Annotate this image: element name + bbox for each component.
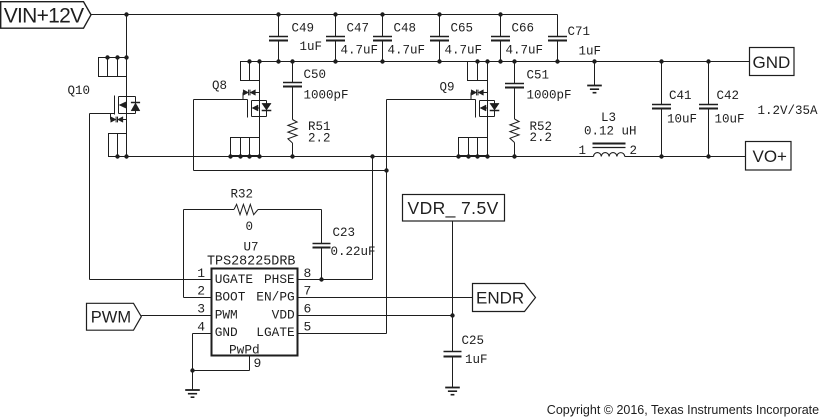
junction GND rail x=477.5 bbox=[475, 59, 479, 63]
svg-text:1000pF: 1000pF bbox=[527, 89, 572, 103]
svg-text:Q8: Q8 bbox=[212, 79, 227, 93]
svg-text:C41: C41 bbox=[669, 89, 692, 103]
svg-text:C48: C48 bbox=[394, 22, 417, 36]
svg-text:VO+: VO+ bbox=[753, 147, 788, 166]
svg-text:C71: C71 bbox=[568, 25, 591, 39]
junction C23 bottom on PHSE wire bbox=[319, 277, 323, 281]
junction GND/PwPd wires bbox=[190, 368, 194, 372]
svg-text:4.7uF: 4.7uF bbox=[388, 44, 426, 58]
junction VIN rail x=278.5 bbox=[276, 12, 280, 16]
junction phase/VO rail x=458.5 bbox=[456, 154, 460, 158]
svg-text:C25: C25 bbox=[462, 334, 485, 348]
svg-text:1: 1 bbox=[579, 144, 587, 158]
capacitor C49 bbox=[269, 15, 288, 62]
transistor Q10 mosfet symbol bbox=[90, 77, 141, 134]
svg-text:1.2V/35A: 1.2V/35A bbox=[758, 104, 819, 118]
net flag VIN+12V bbox=[1, 2, 91, 29]
svg-text:1: 1 bbox=[197, 266, 205, 281]
wire pin 4 GND bbox=[193, 333, 212, 335]
junction VIN rail x=500.5 bbox=[498, 12, 502, 16]
net flag ENDR bbox=[473, 284, 536, 312]
wire phase/switch node rail bbox=[109, 156, 594, 158]
svg-text:6: 6 bbox=[304, 302, 312, 317]
capacitor C66 bbox=[491, 15, 510, 62]
capacitor C25 bbox=[444, 352, 462, 388]
svg-text:GND: GND bbox=[753, 53, 791, 72]
wire R32 right lead to C23 bbox=[258, 209, 322, 211]
transistor Q9 gate ESD diode pair bbox=[471, 90, 488, 100]
svg-text:PHSE: PHSE bbox=[264, 272, 295, 287]
junction GND rail x=382.5 bbox=[380, 59, 384, 63]
transistor Q8 source pin package bbox=[241, 62, 260, 81]
svg-text:2.2: 2.2 bbox=[530, 131, 553, 145]
junction GND rail x=487.5 bbox=[485, 59, 489, 63]
junction GND rail x=249.5 bbox=[247, 59, 251, 63]
transistor Q9 source pin package bbox=[468, 62, 488, 81]
wire LGATE vertical (Q9 gate / pin 5) bbox=[386, 100, 388, 334]
svg-text:0.22uF: 0.22uF bbox=[331, 245, 376, 259]
svg-text:BOOT: BOOT bbox=[215, 290, 246, 305]
IC U7 TPS28225DRB box bbox=[212, 269, 298, 356]
junction phase/VO rail x=487.5 bbox=[485, 154, 489, 158]
capacitor C65 bbox=[430, 15, 449, 62]
wire PWM flag to pin 3 bbox=[141, 315, 211, 317]
svg-text:C23: C23 bbox=[333, 226, 356, 240]
inductor L3 bbox=[593, 144, 626, 157]
svg-text:C42: C42 bbox=[717, 89, 740, 103]
junction phase/VO rail x=126.5 bbox=[124, 154, 128, 158]
svg-text:2.2: 2.2 bbox=[308, 132, 331, 146]
junction phase/VO rail x=661.5 bbox=[659, 154, 663, 158]
junction VDD / VDR / C25 bbox=[450, 313, 454, 317]
junction GND rail x=557.5 bbox=[555, 59, 559, 63]
svg-text:C66: C66 bbox=[512, 22, 535, 36]
junction phase/VO rail x=249.5 bbox=[247, 154, 251, 158]
capacitor C41 bbox=[652, 62, 671, 157]
junction VIN rail x=382.5 bbox=[380, 12, 384, 16]
junction GND rail x=439.5 bbox=[437, 59, 441, 63]
junction GND rail x=259.5 bbox=[257, 59, 261, 63]
junction GND rail x=500.5 bbox=[498, 59, 502, 63]
junction GND rail x=708.5 bbox=[706, 59, 710, 63]
wire LGATE pin 5 to gate bus bbox=[298, 333, 387, 335]
svg-text:Q9: Q9 bbox=[440, 81, 455, 95]
wire PHSE vertical from phase rail bbox=[372, 157, 374, 280]
wire pin 9 PwPd bbox=[249, 356, 251, 371]
svg-text:4.7uF: 4.7uF bbox=[341, 44, 379, 58]
transistor Q9 mosfet symbol bbox=[387, 81, 500, 138]
svg-text:Q10: Q10 bbox=[68, 84, 91, 98]
junction LGATE bus bbox=[384, 168, 388, 172]
wire Q8 gate drop to LGATE bus bbox=[193, 100, 195, 171]
svg-text:1uF: 1uF bbox=[579, 45, 602, 59]
junction phase/VO rail x=514.5 bbox=[512, 154, 516, 158]
junction VIN rail x=439.5 bbox=[437, 12, 441, 16]
capacitor C42 bbox=[699, 62, 718, 157]
transistor Q9 drain pin package bbox=[459, 138, 488, 157]
wire VO+ rail after inductor bbox=[625, 156, 746, 158]
transistor Q8 gate ESD diode pair bbox=[243, 90, 260, 100]
resistor R52 bbox=[510, 119, 519, 157]
capacitor C50 bbox=[283, 62, 302, 120]
svg-text:0: 0 bbox=[246, 220, 254, 234]
svg-text:1uF: 1uF bbox=[465, 353, 488, 367]
wire EN/PG pin 7 to ENDR flag bbox=[298, 297, 473, 299]
capacitor C47 bbox=[326, 15, 345, 62]
svg-text:Copyright © 2016, Texas Instru: Copyright © 2016, Texas Instruments Inco… bbox=[547, 403, 819, 417]
capacitor C23 bbox=[313, 244, 331, 280]
ground symbol below C25 bbox=[445, 388, 460, 395]
svg-text:U7: U7 bbox=[244, 240, 259, 254]
svg-text:EN/PG: EN/PG bbox=[256, 290, 294, 305]
svg-text:2: 2 bbox=[197, 284, 205, 299]
junction GND rail x=514.5 bbox=[512, 59, 516, 63]
junction GND rail x=594.5 bbox=[592, 59, 596, 63]
svg-text:10uF: 10uF bbox=[715, 113, 745, 127]
transistor Q10 drain pin package bbox=[99, 15, 129, 77]
svg-text:7: 7 bbox=[304, 284, 312, 299]
svg-text:9: 9 bbox=[254, 356, 262, 371]
wire PHSE horizontal to pin 8 bbox=[298, 279, 373, 281]
svg-text:4.7uF: 4.7uF bbox=[445, 44, 483, 58]
svg-text:C49: C49 bbox=[292, 22, 315, 36]
svg-text:LGATE: LGATE bbox=[256, 325, 295, 340]
svg-text:TPS28225DRB: TPS28225DRB bbox=[207, 254, 295, 269]
resistor R32 bbox=[234, 204, 258, 214]
net flag GND bbox=[750, 48, 795, 76]
junction GND rail x=661.5 bbox=[659, 59, 663, 63]
junction VIN rail x=335.5 bbox=[333, 12, 337, 16]
junction phase/VO rail x=468.5 bbox=[466, 154, 470, 158]
junction phase/VO rail x=292.5 bbox=[290, 154, 294, 158]
svg-text:10uF: 10uF bbox=[667, 113, 697, 127]
svg-text:C47: C47 bbox=[347, 22, 370, 36]
wire VDD pin 6 to VDR node bbox=[298, 315, 453, 317]
svg-text:0.12 uH: 0.12 uH bbox=[584, 125, 637, 139]
net flag VO+ bbox=[746, 142, 792, 171]
net flag VDR_ 7.5V bbox=[403, 195, 505, 222]
svg-text:C51: C51 bbox=[527, 69, 550, 83]
svg-text:VIN+12V: VIN+12V bbox=[4, 5, 84, 28]
svg-text:C50: C50 bbox=[304, 68, 327, 82]
net flag PWM bbox=[87, 303, 142, 330]
svg-text:VDR_ 7.5V: VDR_ 7.5V bbox=[408, 198, 499, 219]
wire R32 left lead / BOOT bbox=[184, 209, 235, 211]
svg-text:ENDR: ENDR bbox=[476, 289, 524, 308]
junction phase/VO rail x=117.5 bbox=[115, 154, 119, 158]
svg-text:4.7uF: 4.7uF bbox=[506, 44, 544, 58]
transistor Q8 drain pin package bbox=[231, 138, 260, 157]
wire C71 top drop bbox=[557, 15, 559, 37]
wire GND rail (input/output return) bbox=[241, 61, 750, 63]
svg-text:GND: GND bbox=[215, 325, 238, 340]
svg-text:PWM: PWM bbox=[215, 307, 238, 322]
svg-text:3: 3 bbox=[197, 302, 205, 317]
svg-text:5: 5 bbox=[304, 319, 312, 334]
wire LGATE bus horizontal bbox=[194, 170, 387, 172]
resistor R51 bbox=[288, 120, 297, 157]
wire VIN rail bbox=[91, 14, 558, 16]
junction phase/VO rail x=240.5 bbox=[238, 154, 242, 158]
wire UGATE pin 1 to Q10 gate bbox=[90, 279, 212, 281]
svg-text:1uF: 1uF bbox=[300, 40, 323, 54]
svg-text:C65: C65 bbox=[451, 22, 474, 36]
ground symbol below U7 bbox=[185, 371, 200, 398]
junction VIN rail x=126.5 bbox=[124, 12, 128, 16]
svg-text:PWM: PWM bbox=[91, 309, 131, 327]
svg-text:UGATE: UGATE bbox=[215, 272, 254, 287]
junction phase/VO rail x=230.5 bbox=[228, 154, 232, 158]
transistor Q10 source pin package bbox=[109, 134, 127, 157]
svg-text:4: 4 bbox=[197, 319, 205, 334]
svg-text:2: 2 bbox=[630, 144, 638, 158]
junction phase/VO rail x=259.5 bbox=[257, 154, 261, 158]
transistor Q8 mosfet symbol bbox=[194, 81, 272, 138]
ground symbol on GND rail bbox=[587, 62, 602, 93]
junction phase/VO rail x=372.5 bbox=[370, 154, 374, 158]
capacitor C71 bbox=[548, 37, 567, 62]
capacitor C48 bbox=[373, 15, 392, 62]
junction phase/VO rail x=477.5 bbox=[475, 154, 479, 158]
capacitor C51 bbox=[505, 62, 524, 120]
svg-text:VDD: VDD bbox=[272, 307, 295, 322]
junction GND rail x=292.5 bbox=[290, 59, 294, 63]
transistor Q10 gate ESD diode pair bbox=[111, 114, 127, 123]
wire VDR vertical bbox=[452, 221, 454, 352]
junction phase/VO rail x=708.5 bbox=[706, 154, 710, 158]
svg-text:1000pF: 1000pF bbox=[304, 89, 349, 103]
svg-text:L3: L3 bbox=[601, 111, 616, 125]
junction GND rail x=278.5 bbox=[276, 59, 280, 63]
junction GND rail x=335.5 bbox=[333, 59, 337, 63]
svg-text:R32: R32 bbox=[231, 188, 254, 202]
svg-text:8: 8 bbox=[304, 266, 312, 281]
